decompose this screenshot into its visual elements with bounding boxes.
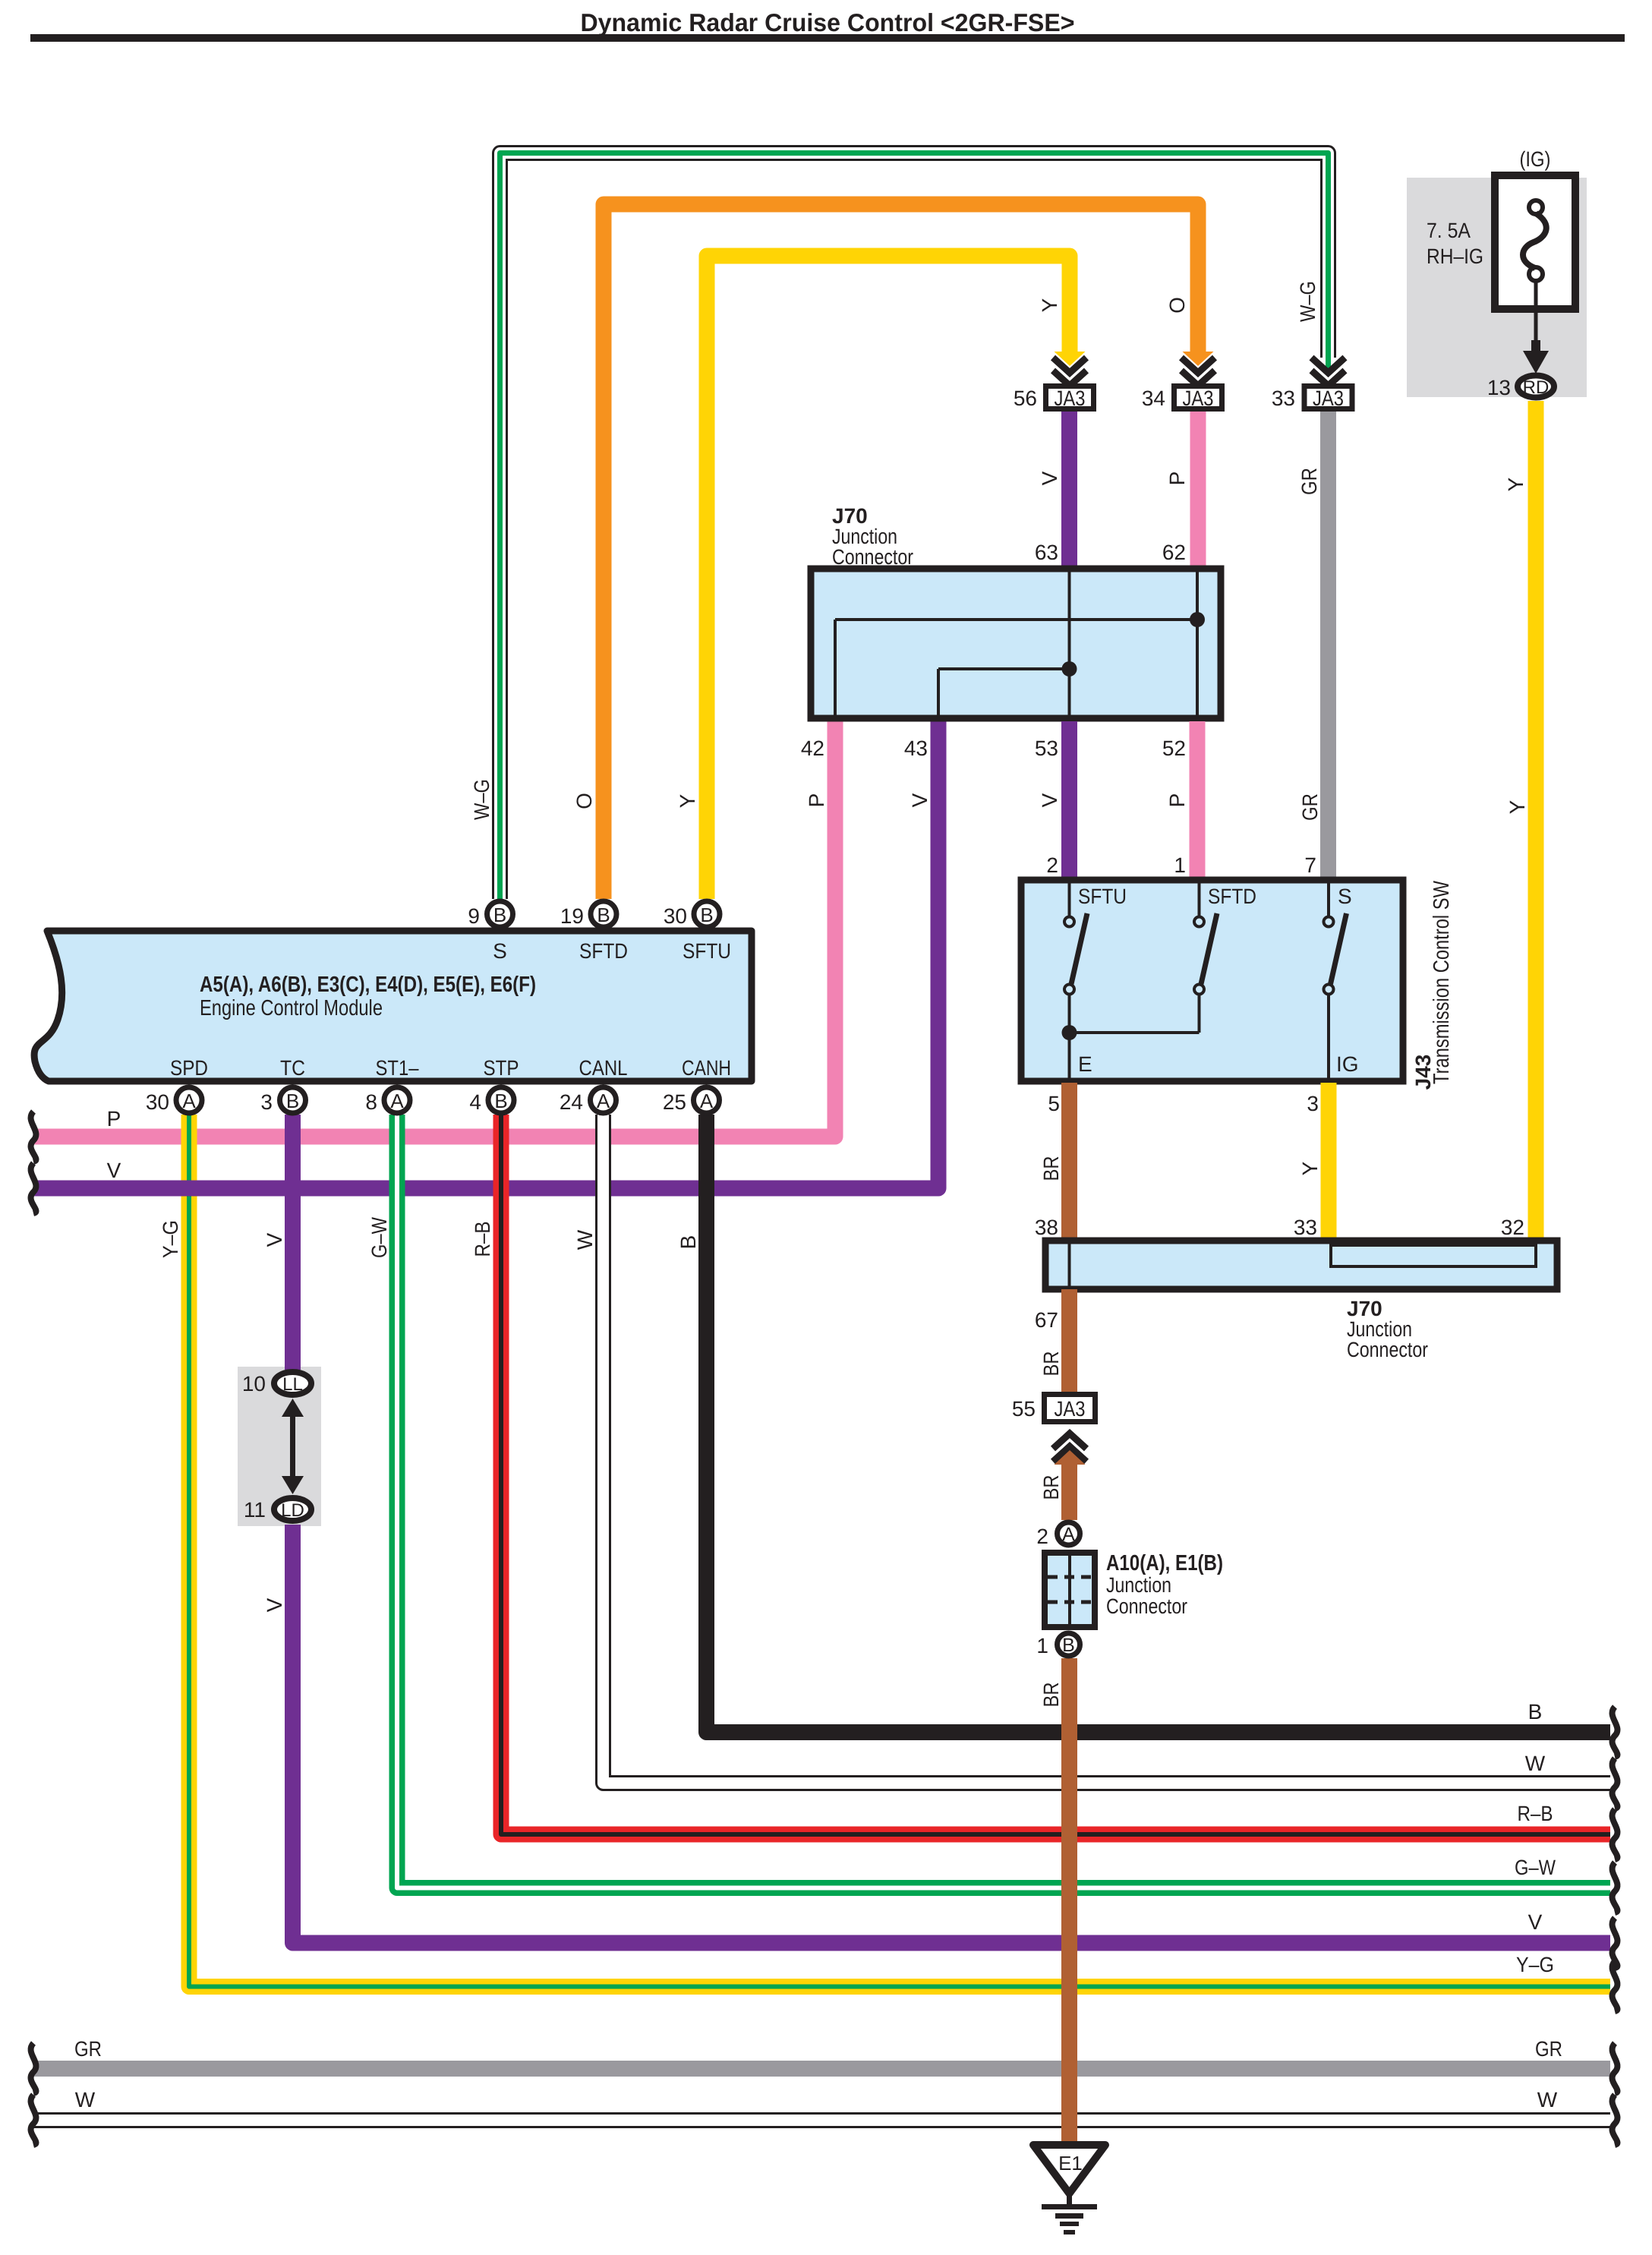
svg-text:SFTU: SFTU (1078, 885, 1127, 908)
svg-text:A10(A), E1(B): A10(A), E1(B) (1106, 1551, 1223, 1575)
label 56 (1014, 386, 1037, 410)
wire G-W (green/white) from ECM pin ST1- down to right break (397, 1115, 1610, 1888)
label Y rotated below RD (1504, 477, 1527, 491)
connector JA3 pin 56 box (1046, 386, 1094, 411)
ECM pin 9 B circle (S) (487, 901, 513, 927)
label BR rotated above ground run (1039, 1683, 1063, 1708)
label V rotated on pin 43 wire (908, 793, 932, 807)
label W-G rotated above JA3 33 (1296, 281, 1319, 322)
break symbol right end of GR wire (1613, 2043, 1618, 2093)
svg-text:A: A (597, 1090, 610, 1112)
svg-text:B: B (286, 1090, 299, 1112)
wire W (white/black outline) from ECM pin CANL down to right break (604, 1115, 1611, 1783)
fuse block gray panel (1407, 178, 1587, 397)
junction connector J70 (upper) box (811, 569, 1221, 718)
svg-text:A: A (390, 1090, 404, 1112)
wire BR (brown) from J43 pin 5 down to J70 lower pin 38 (1061, 1083, 1077, 1238)
J70 upper internal bus pin 42 riser (834, 620, 837, 718)
svg-text:GR: GR (74, 2037, 102, 2061)
svg-text:A: A (182, 1090, 196, 1112)
svg-text:BR: BR (1039, 1475, 1063, 1500)
double arrow between LL and LD (282, 1399, 304, 1494)
svg-text:O: O (572, 793, 596, 809)
svg-text:B: B (1528, 1700, 1543, 1724)
svg-text:GR: GR (1297, 468, 1321, 495)
label (IG) above fuse (1520, 147, 1551, 171)
svg-text:Junction: Junction (1106, 1573, 1171, 1597)
label P rotated on pin 42 wire (805, 793, 828, 808)
label V rotated on pin 53 wire (1038, 793, 1061, 807)
svg-text:38: 38 (1035, 1216, 1058, 1239)
svg-text:Y: Y (1038, 298, 1061, 312)
label GR left (74, 2037, 102, 2061)
label O rotated beside ECM SFTD wire (572, 793, 596, 809)
label pin 2 at A10 (1036, 1525, 1048, 1548)
svg-text:43: 43 (904, 736, 928, 760)
label J70 Junction Connector (lower) (1347, 1297, 1428, 1361)
svg-text:33: 33 (1272, 386, 1295, 410)
svg-text:V: V (1038, 471, 1061, 485)
svg-text:LL: LL (282, 1374, 303, 1395)
label A10(A), E1(B) Junction Connector (1106, 1551, 1223, 1618)
label A5(A), A6(B), E3(C), E4(D), E5(E), E6(F) Engine Control Module (200, 973, 536, 1020)
label Y rotated beside ECM SFTU wire (676, 793, 699, 808)
label E (1078, 1052, 1092, 1076)
svg-text:4: 4 (469, 1090, 481, 1114)
label pin 62 (1162, 541, 1186, 564)
label pin 63 (1035, 541, 1058, 564)
svg-text:Connector: Connector (1347, 1338, 1428, 1361)
label 55 (1012, 1397, 1036, 1421)
svg-text:30: 30 (146, 1090, 169, 1114)
label B at right end (1528, 1700, 1543, 1724)
J43 internal link SFTD to E column (1070, 1031, 1200, 1034)
ground E1 (1033, 2145, 1105, 2234)
label GR right (1535, 2037, 1562, 2061)
J43 SFTU switch (1064, 880, 1087, 1080)
svg-text:LD: LD (281, 1500, 304, 1521)
wire BR (brown) from A10 connector pin 1 down to ground E1 (1061, 1658, 1077, 2145)
label SFTU inside ECM (683, 939, 731, 963)
svg-text:13: 13 (1487, 376, 1511, 399)
wire Y (yellow) from RD down to J70 lower pin 32 (1528, 401, 1544, 1238)
svg-text:62: 62 (1162, 541, 1186, 564)
svg-text:RD: RD (1523, 377, 1550, 398)
svg-text:2: 2 (1036, 1525, 1048, 1548)
svg-text:V: V (908, 793, 932, 807)
connector JA3 pin 34 box (1174, 386, 1222, 411)
junction dot at pin 52 bus (1190, 612, 1205, 627)
svg-text:JA3: JA3 (1313, 386, 1344, 410)
wire O (orange) from ECM pin SFTD up and over to connector JA3 34 (604, 204, 1214, 899)
label pin 38 above J70 lower (1035, 1216, 1058, 1239)
label 19 (560, 904, 584, 928)
label V left of purple horizontal (107, 1159, 121, 1182)
label G-W rotated beside ST1- wire (367, 1217, 391, 1258)
svg-text:Dynamic Radar Cruise Control <: Dynamic Radar Cruise Control <2GR-FSE> (581, 8, 1075, 36)
svg-text:STP: STP (484, 1056, 519, 1080)
label 25 (663, 1090, 686, 1114)
svg-text:W: W (75, 2088, 96, 2111)
title: Dynamic Radar Cruise Control <2GR-FSE> (581, 8, 1075, 36)
svg-text:P: P (1165, 793, 1189, 808)
label pin 1 above J43 (1174, 853, 1186, 877)
svg-text:S: S (1338, 885, 1352, 908)
svg-text:Connector: Connector (832, 545, 913, 569)
label pin 43 (904, 736, 928, 760)
label GR rotated above J43 pin 7 (1298, 793, 1322, 821)
svg-text:GR: GR (1298, 793, 1322, 821)
svg-text:P: P (1165, 471, 1189, 486)
label G-W at right end (1515, 1856, 1556, 1879)
label CANL inside ECM (579, 1056, 628, 1080)
svg-text:B: B (597, 904, 610, 926)
label O rotated above JA3 34 (1165, 297, 1189, 314)
label SFTU (1078, 885, 1127, 908)
label V rotated below JA3 56 (1038, 471, 1061, 485)
label GR rotated below JA3 33 (1297, 468, 1321, 495)
label J70 Junction Connector (upper) (832, 504, 913, 569)
wire P (pink) horizontal from left break to J70 pin 42 (33, 721, 835, 1137)
wire V (violet) from JA3 56 down to J70 pin 63 (1061, 412, 1077, 569)
wire GR (gray) from JA3 33 down to J43 pin 7 (1320, 412, 1336, 880)
label BR rotated above JA3 55 (1039, 1351, 1063, 1377)
ECM pin 4 B circle (STP) (488, 1087, 514, 1113)
svg-text:B: B (494, 1090, 507, 1112)
label pin 42 (801, 736, 824, 760)
svg-text:9: 9 (468, 904, 480, 928)
svg-text:B: B (1062, 1635, 1075, 1656)
break symbol left end of GR wire (31, 2043, 36, 2093)
break symbol right end of G-W wire (1613, 1862, 1618, 1913)
svg-text:P: P (805, 793, 828, 808)
J70 upper internal bus pin 63 to 53 (1068, 569, 1071, 718)
label pin 1 at E1 connector (1036, 1634, 1048, 1657)
label pin 67 below J70 lower (1035, 1308, 1058, 1332)
svg-text:52: 52 (1162, 736, 1186, 760)
label 34 (1142, 386, 1165, 410)
svg-text:(IG): (IG) (1520, 147, 1551, 171)
break symbol right end of R-B wire (1613, 1809, 1618, 1859)
svg-text:Y: Y (1505, 799, 1529, 814)
break symbol right end of W wire (1613, 1758, 1618, 1809)
title rule (30, 34, 1625, 42)
label 30 bottom (146, 1090, 169, 1114)
break symbol right end of bottom W wire (1613, 2095, 1618, 2145)
junction connector J70 (lower) box (1045, 1241, 1557, 1289)
wire GR (gray) horizontal across bottom (33, 2061, 1610, 2077)
ECM pin 30 B circle (SFTU) (694, 901, 720, 927)
svg-text:RH–IG: RH–IG (1427, 244, 1483, 268)
label BR rotated above A10 (1039, 1475, 1063, 1500)
svg-text:3: 3 (1307, 1092, 1319, 1115)
wire W-G (white/green) from ECM pin S up and over to connector JA3 33 (500, 153, 1329, 900)
label STP inside ECM (484, 1056, 519, 1080)
svg-text:19: 19 (560, 904, 584, 928)
transmission control switch J43 box (1021, 880, 1403, 1081)
J70 upper internal bus pin 62 to 52 (1196, 569, 1199, 718)
wire V (violet) from J70 pin 53 down to J43 pin 2 (1061, 721, 1077, 880)
junction dot on E column (1062, 1025, 1077, 1040)
chevron arrows below connector JA3 55 (1053, 1433, 1086, 1462)
connector JA3 pin 55 box (1045, 1395, 1096, 1422)
wire BR (brown) from J70 lower pin 67 down to JA3 55 (1061, 1289, 1077, 1392)
chevron arrows above connector JA3 56 (1053, 358, 1086, 386)
wire BR (brown) from JA3 55 down to A10 pin 2 (1055, 1450, 1086, 1520)
svg-text:P: P (107, 1107, 121, 1131)
label P rotated below JA3 34 (1165, 471, 1189, 486)
wire R-B (red/black) from ECM pin STP down to right break (501, 1115, 1610, 1834)
svg-text:JA3: JA3 (1183, 386, 1214, 410)
label TC inside ECM (280, 1056, 305, 1080)
label Y-G rotated beside SPD wire (159, 1220, 182, 1258)
connector LD pin 11 oval (274, 1498, 311, 1521)
break symbol left end of W wire (31, 2095, 36, 2145)
svg-text:ST1–: ST1– (376, 1056, 419, 1080)
label pin 52 (1162, 736, 1186, 760)
engine control module ECM box (34, 931, 752, 1081)
ECM pin 3 B circle (TC) (280, 1087, 306, 1113)
svg-text:33: 33 (1294, 1216, 1317, 1239)
label S (1338, 885, 1352, 908)
svg-text:W: W (573, 1229, 597, 1250)
svg-text:BR: BR (1039, 1351, 1063, 1377)
label ST1- inside ECM (376, 1056, 419, 1080)
break symbol right end of B wire (1613, 1707, 1618, 1757)
ECM pin 8 A circle (ST1-) (384, 1087, 410, 1113)
svg-text:53: 53 (1035, 736, 1058, 760)
svg-text:67: 67 (1035, 1308, 1058, 1332)
svg-text:CANL: CANL (579, 1056, 628, 1080)
J70 upper internal bus pin 43 riser (937, 669, 940, 718)
svg-text:A: A (700, 1090, 714, 1112)
svg-text:7. 5A: 7. 5A (1427, 219, 1471, 242)
svg-text:55: 55 (1012, 1397, 1036, 1421)
label V at right end (1528, 1910, 1543, 1934)
svg-text:S: S (493, 939, 507, 963)
svg-text:34: 34 (1142, 386, 1165, 410)
svg-text:42: 42 (801, 736, 824, 760)
svg-text:JA3: JA3 (1055, 1397, 1086, 1421)
svg-text:B: B (493, 904, 506, 926)
svg-text:W–G: W–G (1296, 281, 1319, 322)
label W at right end (1525, 1752, 1546, 1775)
label W-G rotated beside ECM S wire (470, 779, 493, 820)
connector JA3 pin 33 box (1304, 386, 1352, 411)
chevron arrows above connector JA3 34 (1181, 358, 1215, 386)
label CANH inside ECM (682, 1056, 731, 1080)
svg-text:Transmission Control SW: Transmission Control SW (1430, 880, 1454, 1084)
svg-text:W: W (1537, 2088, 1558, 2111)
svg-text:V: V (1038, 793, 1061, 807)
svg-text:R–B: R–B (471, 1222, 494, 1257)
svg-text:Y–G: Y–G (159, 1220, 182, 1258)
svg-text:3: 3 (260, 1090, 273, 1114)
svg-text:R–B: R–B (1518, 1802, 1553, 1825)
svg-text:JA3: JA3 (1055, 386, 1086, 410)
wire V (purple) from ECM pin TC down to LL connector (285, 1115, 301, 1370)
ECM pin 25 A circle (CANH) (694, 1087, 720, 1113)
label BR rotated below J43 (1039, 1156, 1063, 1181)
wire P (pink) from JA3 34 down to J70 pin 62 (1190, 412, 1206, 569)
svg-text:1: 1 (1036, 1634, 1048, 1657)
svg-text:E1: E1 (1058, 2152, 1083, 2175)
ECM pin 24 A circle (CANL) (591, 1087, 616, 1113)
svg-text:25: 25 (663, 1090, 686, 1114)
wire W (white/black outline) horizontal across bottom (33, 2112, 1610, 2128)
svg-text:IG: IG (1336, 1052, 1359, 1076)
label B rotated beside CANH wire (676, 1235, 700, 1250)
junction dot at pin 53 bus (1062, 661, 1077, 676)
svg-text:Connector: Connector (1106, 1594, 1187, 1618)
ECM pin 30 A circle (SPD) (176, 1087, 202, 1113)
label 11 (244, 1498, 266, 1522)
J70 upper internal bus horizontal 43-53 (938, 667, 1070, 670)
svg-text:7: 7 (1304, 853, 1316, 877)
svg-text:SFTD: SFTD (579, 939, 628, 963)
label R-B at right end (1518, 1802, 1553, 1825)
svg-text:63: 63 (1035, 541, 1058, 564)
connector A10/E1 pin A circle (1058, 1522, 1080, 1545)
label pin 32 above J70 lower (1501, 1216, 1524, 1239)
svg-text:Engine Control Module: Engine Control Module (200, 996, 383, 1020)
label pin 7 above J43 (1304, 853, 1316, 877)
label pin 33 above J70 lower (1294, 1216, 1317, 1239)
svg-text:G–W: G–W (1515, 1856, 1556, 1879)
label P rotated on pin 52 wire (1165, 793, 1189, 808)
label Y rotated above J70 lower pin 32 column (1505, 799, 1529, 814)
svg-text:A5(A), A6(B), E3(C), E4(D), E5: A5(A), A6(B), E3(C), E4(D), E5(E), E6(F) (200, 973, 536, 997)
label 13 (1487, 376, 1511, 399)
svg-text:SPD: SPD (170, 1056, 208, 1080)
label SPD inside ECM (170, 1056, 208, 1080)
J43 S-IG switch (1324, 880, 1347, 1080)
label 10 (242, 1372, 266, 1396)
svg-text:G–W: G–W (367, 1217, 391, 1258)
connector A10/E1 pin B circle (1058, 1633, 1080, 1656)
svg-text:BR: BR (1039, 1156, 1063, 1181)
label S inside ECM (493, 939, 507, 963)
J70 lower internal bus pin 38 to 67 (1068, 1241, 1071, 1289)
label Y rotated below J43 (1298, 1161, 1322, 1175)
label Transmission Control SW rotated (1430, 880, 1454, 1084)
svg-text:10: 10 (242, 1372, 266, 1396)
connector gray panel for LL/LD (238, 1367, 321, 1526)
label 3 (260, 1090, 273, 1114)
label SFTD inside ECM (579, 939, 628, 963)
wire Y (yellow) from ECM pin SFTU up and over to connector JA3 56 (707, 256, 1086, 899)
break symbol right end of Y-G wire (1613, 1961, 1618, 2011)
wire B (black) from ECM pin CANH down to right break (707, 1115, 1611, 1733)
wire Y-G (yellow/green) from ECM pin SPD down to right break (189, 1115, 1610, 1987)
J70 upper internal bus horizontal 42-52 (835, 618, 1197, 621)
svg-text:CANH: CANH (682, 1056, 731, 1080)
label 9 (468, 904, 480, 928)
svg-text:56: 56 (1014, 386, 1037, 410)
J43 SFTD switch (1194, 880, 1217, 1033)
svg-text:TC: TC (280, 1056, 305, 1080)
wire V (purple) from LD connector down to right break (293, 1525, 1611, 1943)
svg-text:V: V (263, 1597, 286, 1612)
wire Y (yellow) from J43 pin 3 down to J70 lower pin 33 (1321, 1083, 1337, 1238)
svg-text:V: V (1528, 1910, 1543, 1934)
label pin 5 below J43 (1048, 1092, 1060, 1115)
svg-text:5: 5 (1048, 1092, 1060, 1115)
label J43 rotated (1411, 1055, 1435, 1090)
svg-text:Y: Y (1504, 477, 1527, 491)
label 30 top (664, 904, 687, 928)
svg-text:B: B (700, 904, 713, 926)
wire P (pink) from J70 pin 52 down to J43 pin 1 (1190, 721, 1206, 880)
break symbol left end of V wire (31, 1163, 36, 1213)
svg-text:2: 2 (1046, 853, 1058, 877)
label 33 (1272, 386, 1295, 410)
label V rotated below LD connector (263, 1597, 286, 1612)
connector RD pin 13 oval (1518, 376, 1554, 399)
break symbol left end of P wire (31, 1112, 36, 1162)
wire V (purple) horizontal from left break to J70 pin 43 (33, 721, 938, 1188)
label V rotated beside TC wire (263, 1232, 286, 1247)
label W right bottom (1537, 2088, 1558, 2111)
label W left (75, 2088, 96, 2111)
label P left of pink horizontal (107, 1107, 121, 1131)
J70 lower internal bus rectangle pins 33-32 (1331, 1245, 1536, 1266)
svg-text:32: 32 (1501, 1216, 1524, 1239)
svg-text:B: B (676, 1235, 700, 1250)
svg-text:Y–G: Y–G (1516, 1953, 1554, 1976)
label SFTD (1208, 885, 1256, 908)
svg-text:Y: Y (1298, 1161, 1322, 1175)
label IG (1336, 1052, 1359, 1076)
svg-text:W–G: W–G (470, 779, 493, 820)
label 4 (469, 1090, 481, 1114)
svg-text:GR: GR (1535, 2037, 1562, 2061)
label Y-G at right end (1516, 1953, 1554, 1976)
svg-text:24: 24 (560, 1090, 583, 1114)
wire from fuse to connector RD with arrowhead (1523, 281, 1549, 374)
svg-text:O: O (1165, 297, 1189, 314)
connector LL pin 10 oval (274, 1372, 311, 1395)
label 7.5A RH-IG (1427, 219, 1483, 268)
svg-text:BR: BR (1039, 1683, 1063, 1708)
svg-text:SFTD: SFTD (1208, 885, 1256, 908)
label pin 3 below J43 (1307, 1092, 1319, 1115)
svg-text:30: 30 (664, 904, 687, 928)
label 24 (560, 1090, 583, 1114)
label R-B rotated beside STP wire (471, 1222, 494, 1257)
chevron arrows above connector JA3 33 (1312, 358, 1345, 386)
ECM pin 19 B circle (SFTD) (591, 901, 616, 927)
label pin 53 (1035, 736, 1058, 760)
svg-text:SFTU: SFTU (683, 939, 731, 963)
fuse 7.5A RH-IG box (1495, 175, 1575, 309)
svg-text:V: V (107, 1159, 121, 1182)
svg-text:11: 11 (244, 1498, 266, 1522)
label 8 (365, 1090, 377, 1114)
svg-text:W: W (1525, 1752, 1546, 1775)
svg-text:E: E (1078, 1052, 1092, 1076)
svg-text:Y: Y (676, 793, 699, 808)
svg-text:8: 8 (365, 1090, 377, 1114)
junction connector A10(A) E1(B) box (1045, 1553, 1095, 1627)
svg-text:1: 1 (1174, 853, 1186, 877)
label Y rotated above JA3 56 (1038, 298, 1061, 312)
label W rotated beside CANL wire (573, 1229, 597, 1250)
svg-text:A: A (1062, 1524, 1075, 1545)
svg-text:V: V (263, 1232, 286, 1247)
break symbol right end of V wire (1613, 1918, 1618, 1968)
label pin 2 above J43 (1046, 853, 1058, 877)
